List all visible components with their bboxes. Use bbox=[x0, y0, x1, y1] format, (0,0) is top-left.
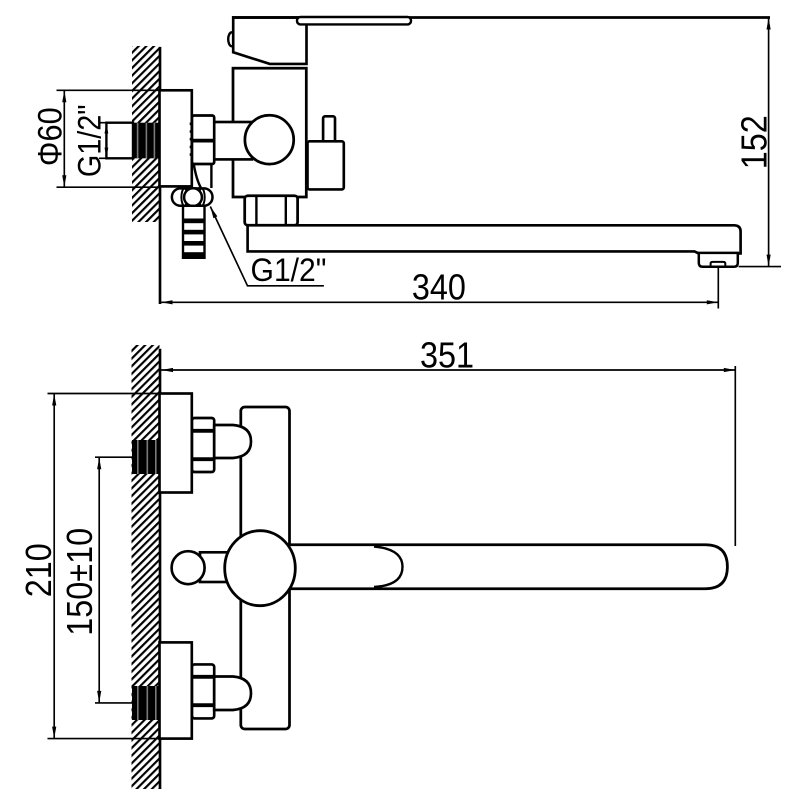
svg-text:150±10: 150±10 bbox=[60, 528, 100, 636]
svg-text:Φ60: Φ60 bbox=[31, 107, 69, 166]
svg-text:351: 351 bbox=[420, 336, 474, 376]
svg-text:340: 340 bbox=[412, 268, 466, 308]
svg-text:152: 152 bbox=[735, 115, 775, 169]
svg-text:G1/2": G1/2" bbox=[72, 104, 108, 177]
svg-text:210: 210 bbox=[19, 543, 59, 597]
svg-text:G1/2": G1/2" bbox=[251, 252, 327, 288]
